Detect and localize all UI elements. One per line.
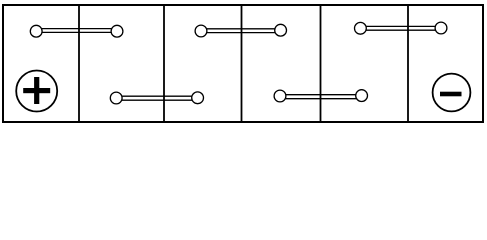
negative terminal bbox=[433, 74, 471, 112]
cell divider wall 2 bbox=[163, 5, 165, 122]
connector strap 5 (cell5-cell6, top) bbox=[355, 22, 447, 34]
connector strap 4 (cell4-cell5, bottom) bbox=[274, 90, 367, 102]
positive terminal bbox=[16, 71, 57, 112]
battery case outline bbox=[3, 5, 483, 122]
connector strap 2 (cell2-cell3, bottom) bbox=[110, 92, 203, 104]
connector strap 1 (cell1-cell2, top) bbox=[30, 25, 123, 37]
connector strap 3 (cell3-cell4, top) bbox=[195, 24, 286, 37]
cell divider wall 4 bbox=[320, 5, 322, 122]
cell divider wall 5 bbox=[407, 5, 409, 122]
cell divider wall 1 bbox=[78, 5, 80, 122]
cell divider wall 3 bbox=[241, 5, 243, 122]
